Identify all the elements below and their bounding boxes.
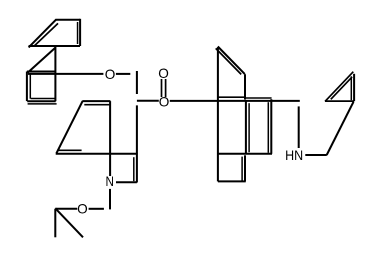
svg-text:O: O [105, 67, 116, 82]
svg-text:N: N [105, 174, 113, 189]
svg-text:O: O [159, 95, 170, 110]
svg-text:O: O [158, 66, 169, 81]
svg-text:HN: HN [285, 147, 303, 163]
svg-text:O: O [77, 202, 88, 217]
